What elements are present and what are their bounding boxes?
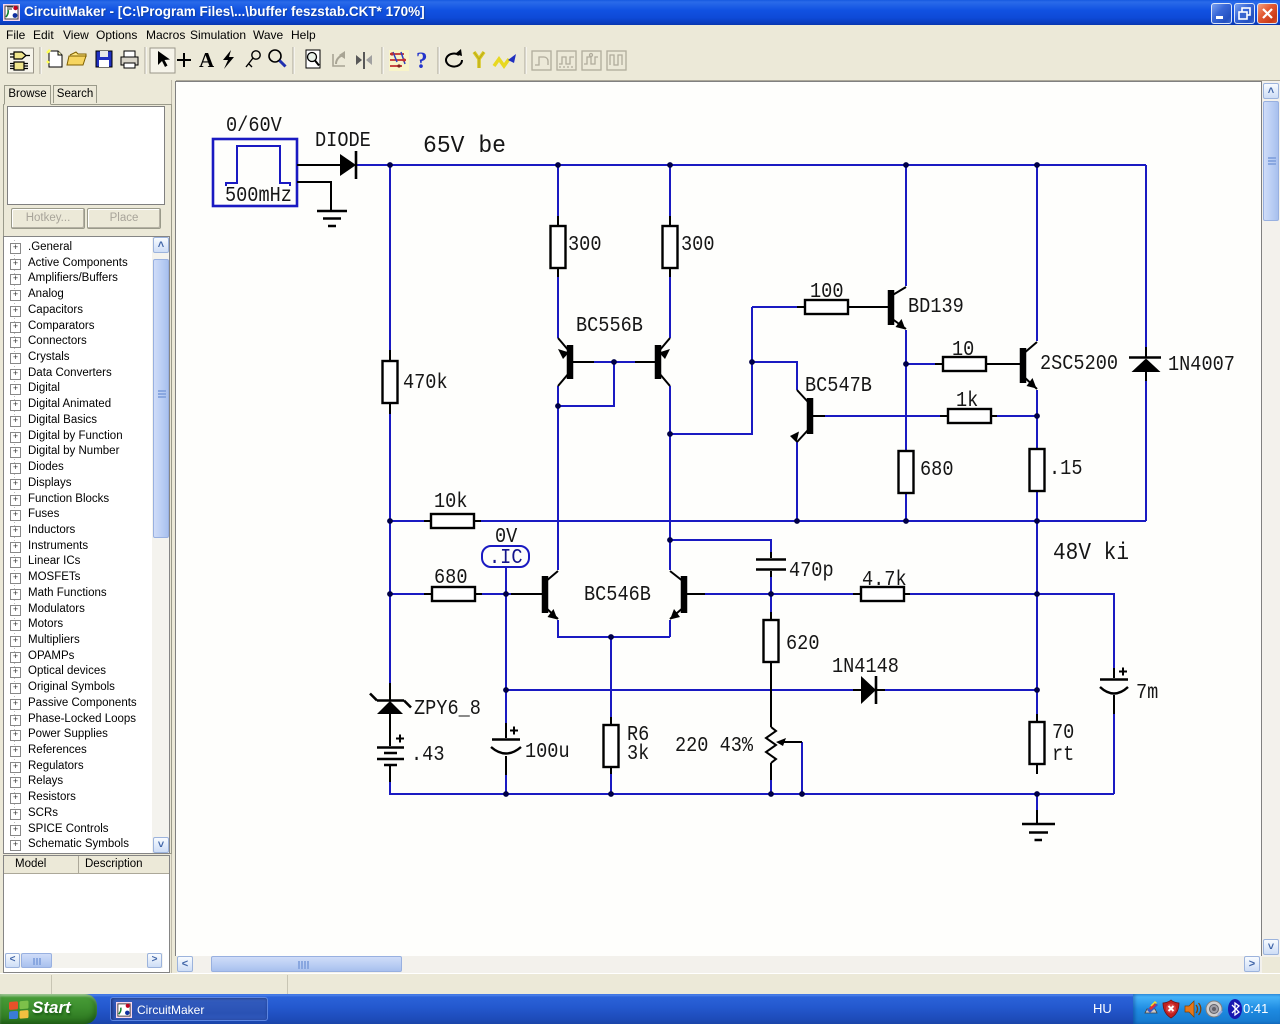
svg-text:1N4007: 1N4007 [1168, 354, 1235, 377]
svg-text:1N4148: 1N4148 [832, 656, 899, 679]
svg-text:680: 680 [920, 459, 954, 482]
svg-text:65V be: 65V be [423, 133, 506, 160]
svg-text:10: 10 [952, 339, 974, 362]
svg-text:470p: 470p [789, 560, 834, 583]
svg-text:7m: 7m [1136, 682, 1158, 705]
svg-text:300: 300 [681, 234, 715, 257]
svg-text:10k: 10k [434, 491, 468, 514]
svg-text:220 43%: 220 43% [675, 735, 753, 758]
svg-text:A: A [199, 48, 215, 72]
svg-text:?: ? [416, 48, 428, 73]
svg-text:BC547B: BC547B [805, 375, 872, 398]
svg-text:.IC: .IC [489, 547, 523, 570]
svg-text:620: 620 [786, 633, 820, 656]
svg-text:BD139: BD139 [908, 296, 964, 319]
svg-text:680: 680 [434, 567, 468, 590]
svg-text:.15: .15 [1049, 458, 1083, 481]
svg-text:ZPY6_8: ZPY6_8 [414, 698, 481, 721]
svg-text:70: 70 [1052, 722, 1074, 745]
svg-text:470k: 470k [403, 372, 448, 395]
svg-text:BC556B: BC556B [576, 315, 643, 338]
svg-text:4.7k: 4.7k [862, 569, 907, 592]
svg-text:48V ki: 48V ki [1053, 540, 1129, 567]
svg-text:DIODE: DIODE [315, 130, 371, 153]
svg-text:300: 300 [568, 234, 602, 257]
svg-text:500mHz: 500mHz [225, 185, 292, 208]
svg-text:100: 100 [810, 281, 844, 304]
svg-text:100u: 100u [525, 741, 570, 764]
svg-text:.43: .43 [411, 744, 445, 767]
svg-text:BC546B: BC546B [584, 584, 651, 607]
svg-text:rt: rt [1052, 744, 1074, 767]
svg-text:3k: 3k [627, 743, 649, 766]
svg-text:1k: 1k [956, 390, 978, 413]
svg-text:0V: 0V [495, 526, 518, 549]
svg-text:0/60V: 0/60V [226, 115, 282, 138]
svg-text:2SC5200: 2SC5200 [1040, 353, 1118, 376]
